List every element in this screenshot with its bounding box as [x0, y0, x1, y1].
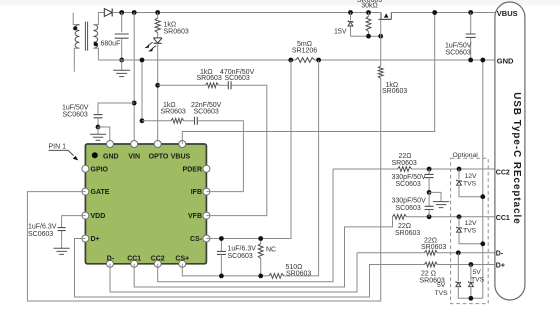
ground at 330pF midpoint	[429, 192, 441, 201]
wire secondary bottom to ground rail	[93, 48, 98, 60]
svg-text:GND: GND	[103, 153, 119, 160]
node loop-30k junction	[366, 34, 371, 39]
resistor 30k SR0603 gate pullup	[368, 13, 370, 17]
svg-text:SR0603: SR0603	[421, 244, 446, 251]
wire ground rail left of shunt	[98, 59, 295, 61]
node TVS bus at ground rail	[480, 58, 485, 63]
svg-text:TVS: TVS	[463, 181, 477, 188]
pin OPTO (top)	[154, 141, 161, 148]
pin CC1 (bottom)	[131, 260, 138, 267]
wire ground rail right of shunt	[315, 59, 496, 61]
node top rail junction at VIN column	[132, 10, 137, 15]
transistor Q1 PMOS	[380, 13, 382, 20]
svg-text:SC0603: SC0603	[225, 75, 250, 82]
pin D- (bottom)	[107, 260, 114, 267]
pin CS+ (bottom)	[179, 260, 186, 267]
wire D- row left	[357, 252, 424, 254]
node vbus cap bottom	[468, 58, 473, 63]
svg-text:SC0603: SC0603	[63, 112, 88, 119]
capacitor 470nF/50V SC0603 row1	[228, 81, 231, 89]
node VIN / bypass junction	[132, 101, 137, 106]
svg-text:SC0603: SC0603	[28, 231, 53, 238]
wire top rail (diode cathode to PMOS source)	[112, 12, 381, 14]
wire 510 to shunt	[284, 60, 319, 276]
pin CC2 (bottom)	[154, 260, 161, 267]
svg-text:30kΩ: 30kΩ	[361, 2, 378, 9]
svg-text:5V: 5V	[473, 269, 482, 276]
node CS+ rail at NC	[258, 274, 263, 279]
svg-text:D-: D-	[496, 250, 504, 257]
pin GND (top)	[107, 141, 114, 148]
wire gate node to 1k	[380, 36, 382, 66]
capacitor 22nF/50V SC0603 row2	[195, 117, 198, 125]
pin PDER (right)	[203, 165, 210, 172]
zener 15V	[350, 13, 352, 21]
svg-text:1uF/50V: 1uF/50V	[62, 104, 89, 111]
TVS 12V CC1	[458, 217, 460, 227]
capacitor 330pF/50V SC0603 lower	[428, 192, 430, 206]
wire D- row right	[437, 252, 495, 254]
optional TVS dashed box	[451, 158, 489, 303]
svg-text:USB Type-C REceptacle: USB Type-C REceptacle	[511, 92, 522, 224]
node D+ at TVS	[469, 262, 474, 267]
svg-text:SR0603: SR0603	[161, 109, 186, 116]
svg-text:IFB: IFB	[191, 189, 202, 196]
capacitor 680uF	[121, 13, 123, 33]
resistor NC (not placed)	[260, 239, 262, 244]
wire PMOS gate down	[380, 19, 382, 36]
ground at VIN bypass	[97, 127, 99, 134]
TVS 5V D-	[457, 253, 459, 281]
node row2 at ground rail	[140, 58, 145, 63]
resistor 1k SR0603 gate	[378, 66, 383, 78]
svg-text:SC0603: SC0603	[396, 181, 421, 188]
wire VBUS pin to top rail	[182, 13, 434, 145]
node shunt right (CS+)	[316, 58, 321, 63]
node CS- at NC	[258, 236, 263, 241]
svg-text:CC2: CC2	[496, 169, 510, 176]
svg-text:D-: D-	[107, 255, 115, 262]
node loop-gate junction	[378, 34, 383, 39]
svg-text:SR0603: SR0603	[382, 88, 407, 95]
node bus at CC1 TVS	[480, 241, 485, 246]
svg-text:TVS: TVS	[471, 277, 485, 284]
wire CS+ bottom rail	[182, 264, 268, 276]
capacitor 330pF/50V SC0603 upper	[428, 169, 430, 174]
svg-text:22 Ω: 22 Ω	[421, 271, 436, 278]
svg-text:PIN 1: PIN 1	[49, 144, 67, 151]
IC U1 converter body	[85, 144, 206, 264]
svg-text:VBUS: VBUS	[171, 153, 191, 160]
TVS 12V CC2	[458, 169, 460, 179]
transformer T1 secondary winding	[93, 25, 97, 49]
pin GPIO (left)	[82, 165, 89, 172]
svg-text:CC1: CC1	[127, 255, 141, 262]
node TVS bus bottom	[469, 296, 474, 301]
svg-text:CS-: CS-	[190, 236, 203, 243]
node zener top	[348, 10, 353, 15]
svg-text:SR1206: SR1206	[292, 47, 317, 54]
wire D- from IC	[110, 253, 357, 292]
svg-text:VFB: VFB	[188, 213, 202, 220]
node CC2 at 330pF	[427, 167, 432, 172]
svg-text:Optional: Optional	[453, 152, 479, 159]
capacitor 1uF/50V SC0603 (VIN bypass)	[94, 115, 103, 118]
svg-text:GATE: GATE	[91, 189, 110, 196]
svg-text:PDER: PDER	[183, 166, 202, 173]
node row2 corner	[140, 118, 145, 123]
svg-text:1kΩ: 1kΩ	[164, 22, 177, 29]
pin VFB (right)	[203, 212, 210, 219]
pin D+ (left)	[82, 235, 89, 242]
node top rail junction at opto resistor	[155, 10, 160, 15]
capacitor 1uF/6.3V SC0603 (CS filter)	[220, 239, 222, 252]
pin VBUS (top)	[179, 141, 186, 148]
svg-text:VBUS: VBUS	[497, 9, 518, 18]
svg-text:SC0603: SC0603	[194, 109, 219, 116]
resistor 1k SR0603 row2	[171, 118, 184, 123]
wire secondary top to diode anode	[93, 13, 104, 25]
svg-text:D+: D+	[496, 262, 505, 269]
wire row1 to VFB	[206, 85, 266, 215]
wire D+ from IC	[75, 239, 425, 298]
wire CC1 row right	[407, 216, 496, 218]
transformer T1 core	[85, 22, 87, 51]
svg-text:330pF/50V: 330pF/50V	[392, 198, 427, 205]
svg-text:680uF: 680uF	[101, 41, 121, 48]
node CC1 at TVS	[457, 214, 462, 219]
USB Type-C receptacle outline	[495, 2, 525, 300]
svg-text:22Ω: 22Ω	[399, 153, 412, 160]
wire D+ row right	[437, 264, 495, 266]
node CC1 at 330pF	[427, 214, 432, 219]
resistor 1k SR0603 row1	[206, 83, 219, 88]
wire CC2 row left	[333, 168, 398, 170]
wire CC2 from IC	[158, 169, 333, 282]
wire CC1 from IC	[134, 217, 392, 287]
pin IFB (right)	[203, 188, 210, 195]
node 330pF mid	[427, 190, 432, 195]
svg-text:TVS: TVS	[435, 290, 449, 297]
node D- at TVS	[456, 250, 461, 255]
svg-text:12V: 12V	[465, 220, 478, 227]
svg-text:12V: 12V	[465, 173, 478, 180]
pin VDD (left)	[82, 212, 89, 219]
wire bypass cap to VIN	[98, 103, 134, 114]
wire CS- line	[206, 60, 291, 239]
node CS- at filter cap	[219, 236, 224, 241]
svg-text:SC0603: SC0603	[228, 253, 253, 260]
diode D1 rectifier	[104, 9, 112, 17]
wire TVS ground bus	[482, 60, 484, 298]
ground at VDD cap	[54, 248, 70, 254]
wire gate clamp loop	[351, 35, 381, 37]
pin CS- (right)	[203, 235, 210, 242]
IC U1 pin 1 indicator dot	[92, 152, 98, 158]
pin VIN (top)	[131, 141, 138, 148]
node 30k top	[366, 10, 371, 15]
svg-text:SC0603: SC0603	[396, 205, 421, 212]
svg-text:VDD: VDD	[91, 213, 106, 220]
svg-text:TVS: TVS	[463, 228, 477, 235]
svg-text:1uF/6.3V: 1uF/6.3V	[228, 245, 257, 252]
resistor 22 SR0603 D-	[424, 250, 437, 255]
svg-text:OPTO: OPTO	[149, 153, 169, 160]
svg-text:SR0603: SR0603	[286, 270, 311, 277]
node vbus cap top	[468, 10, 473, 15]
svg-text:D+: D+	[91, 236, 100, 243]
svg-text:SR0603: SR0603	[395, 230, 420, 237]
svg-text:330pF/50V: 330pF/50V	[392, 174, 427, 181]
capacitor 1uF/50V SC0603 (VBUS)	[470, 13, 472, 34]
resistor 510 SR0603	[269, 274, 284, 279]
resistor 22 SR0603 CC1	[393, 214, 407, 219]
transformer T1 primary winding	[73, 13, 79, 25]
resistor 5mOhm SR1206 shunt	[296, 58, 315, 63]
resistor 1k SR0603 opto	[157, 13, 159, 18]
wire row2 drop from ground rail	[141, 60, 143, 121]
svg-text:CC2: CC2	[151, 255, 165, 262]
wire VIN column	[133, 13, 135, 145]
capacitor 1uF/6.3V SC0603 (VDD)	[58, 228, 66, 231]
svg-text:NC: NC	[266, 246, 276, 253]
transformer T1 secondary polarity dot	[94, 42, 98, 46]
wire top rail (PMOS drain to USB VBUS)	[391, 12, 495, 14]
svg-text:SR0603: SR0603	[164, 29, 189, 36]
ground at 680uF	[121, 60, 123, 70]
svg-text:15V: 15V	[334, 28, 347, 35]
resistor 22 SR0603 CC2	[398, 167, 412, 172]
svg-text:CC1: CC1	[496, 215, 510, 222]
wire VDD to cap	[62, 216, 86, 228]
svg-text:SR0603: SR0603	[392, 160, 417, 167]
pin GATE (left)	[82, 188, 89, 195]
node shunt left (CS-)	[288, 58, 293, 63]
wire row2 mid	[184, 120, 194, 122]
node VBUS link at top rail	[432, 10, 437, 15]
wire gate line to IC GATE	[27, 78, 380, 301]
svg-text:SR0603: SR0603	[197, 75, 222, 82]
svg-text:GPIO: GPIO	[91, 166, 109, 173]
node CC2 at TVS	[457, 167, 462, 172]
wire row1 mid	[219, 84, 228, 86]
node bypass cap bottom	[96, 125, 101, 130]
svg-text:1uF/6.3V: 1uF/6.3V	[28, 224, 57, 231]
wire bypass ground to IC GND pin	[98, 127, 110, 144]
LED emission arrows	[148, 42, 152, 45]
svg-text:GND: GND	[497, 56, 514, 65]
wire row2 start	[142, 120, 171, 122]
transformer T1 primary polarity dot	[73, 26, 77, 30]
svg-text:SC0603: SC0603	[446, 50, 471, 57]
svg-text:22Ω: 22Ω	[398, 223, 411, 230]
svg-text:1uF/50V: 1uF/50V	[445, 43, 472, 50]
node ground rail junction 680uF	[119, 58, 124, 63]
svg-text:VIN: VIN	[128, 153, 140, 160]
TVS 5V D+	[470, 265, 472, 281]
svg-text:CS+: CS+	[175, 255, 189, 262]
wire CC2 row right	[412, 168, 496, 170]
wire row2 to IFB	[198, 121, 244, 192]
node opto column / IFB-row1 junction	[155, 83, 160, 88]
node top rail junction at 680uF	[119, 10, 124, 15]
wire row1 start	[158, 84, 206, 86]
LED optocoupler emitter	[153, 38, 162, 43]
resistor 22 SR0603 D+	[424, 262, 437, 267]
node CS+ rail at filter cap	[219, 274, 224, 279]
node bus at CC2 TVS	[480, 194, 485, 199]
svg-text:5V: 5V	[437, 282, 446, 289]
